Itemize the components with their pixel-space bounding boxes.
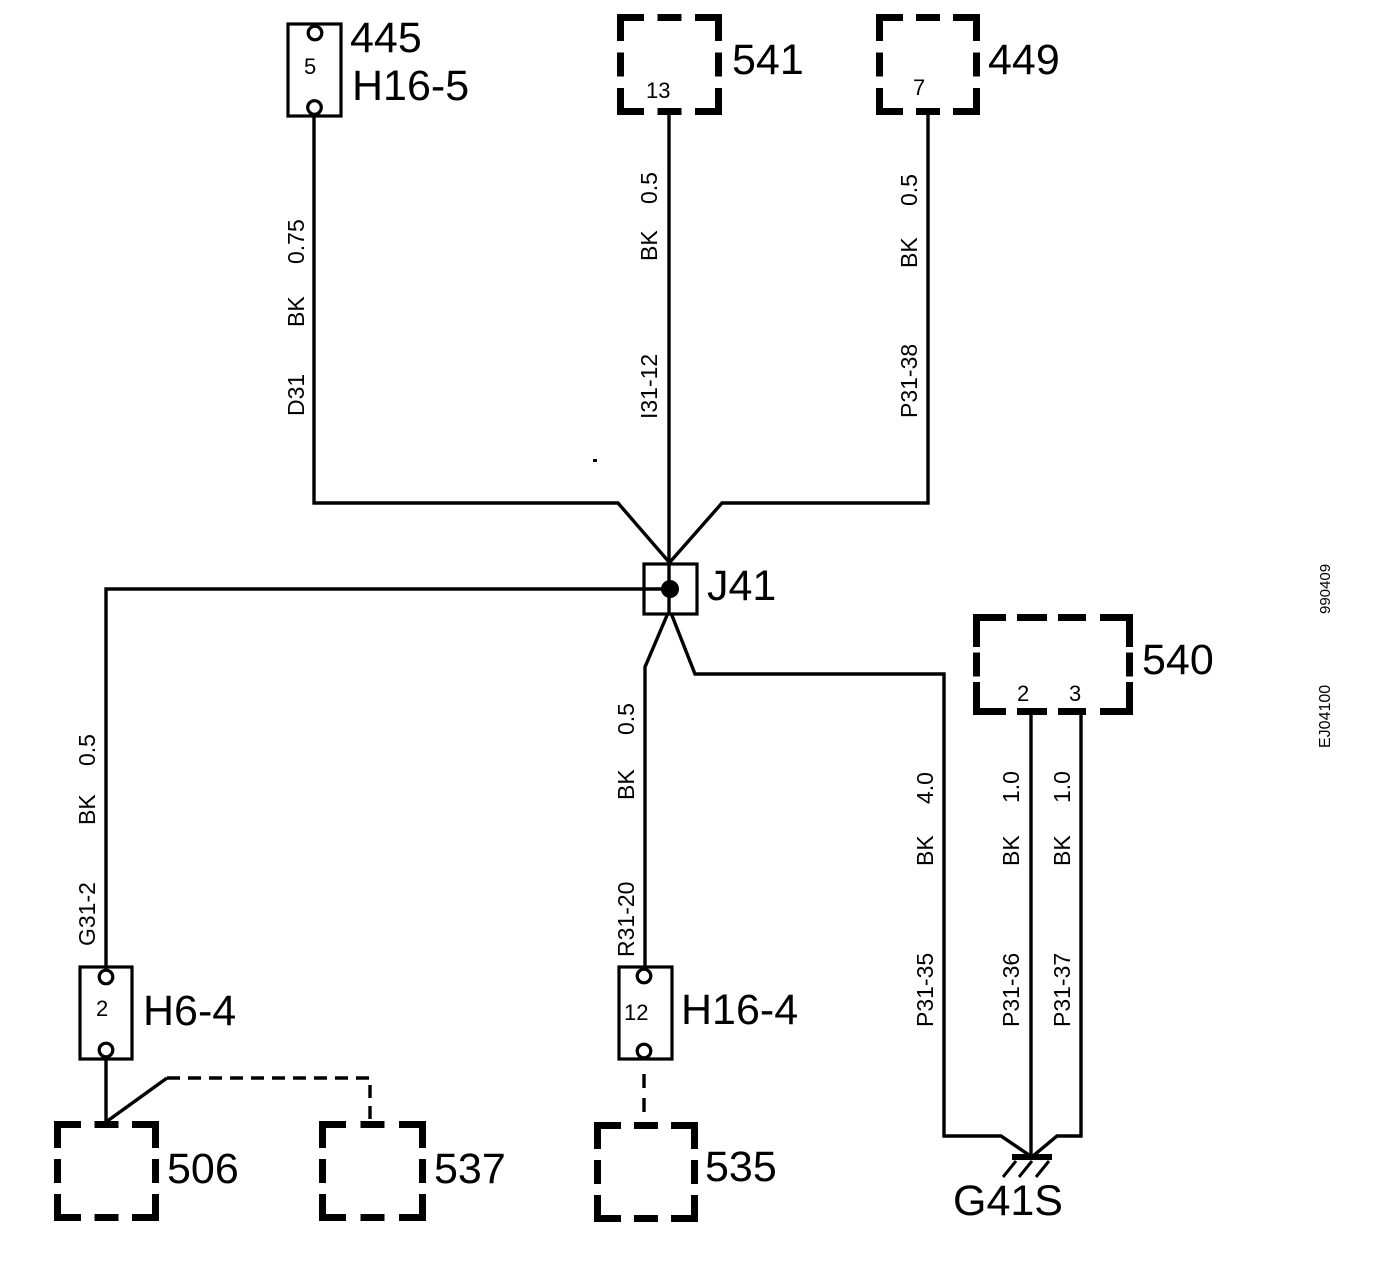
- svg-text:537: 537: [434, 1145, 506, 1193]
- component box 449 (dashed): [876, 14, 980, 115]
- svg-text:13: 13: [646, 78, 670, 103]
- svg-text:BK: BK: [283, 296, 309, 327]
- wire label P31-38 BK 0.5: [896, 174, 922, 418]
- svg-text:EJ04100: EJ04100: [1317, 685, 1334, 748]
- wire label I31-12 BK 0.5: [636, 172, 662, 419]
- wire P31-35 from splice J41 to ground G41S: [671, 613, 1032, 1157]
- svg-text:445: 445: [350, 14, 422, 62]
- margin reference EJ04100: [1317, 685, 1334, 748]
- svg-text:3: 3: [1069, 681, 1081, 706]
- wire label R31-20 BK 0.5: [613, 703, 639, 957]
- wire G31-2 from splice J41 to connector H6-4: [106, 589, 670, 971]
- wire I31-12 from 541 to splice J41: [667, 115, 670, 613]
- svg-text:BK: BK: [998, 835, 1024, 866]
- svg-text:R31-20: R31-20: [613, 882, 639, 957]
- svg-text:2: 2: [96, 996, 108, 1021]
- svg-text:I31-12: I31-12: [636, 354, 662, 419]
- svg-text:4.0: 4.0: [912, 772, 938, 804]
- component box 537 (dashed): [319, 1121, 426, 1221]
- svg-text:541: 541: [732, 36, 804, 84]
- dashed wire from connector H16-4 to component 535: [642, 1074, 645, 1121]
- svg-text:H16-5: H16-5: [352, 62, 469, 110]
- svg-text:BK: BK: [1049, 835, 1075, 866]
- svg-text:535: 535: [705, 1143, 777, 1191]
- wire label P31-35 BK 4.0: [912, 772, 938, 1027]
- ground symbol G41S: [1003, 1154, 1052, 1177]
- svg-text:P31-36: P31-36: [998, 953, 1024, 1027]
- svg-text:BK: BK: [912, 835, 938, 866]
- svg-text:G41S: G41S: [953, 1177, 1063, 1225]
- svg-text:12: 12: [624, 1000, 648, 1025]
- wire P31-38 from 449 to splice J41: [670, 115, 928, 562]
- component box 540 (dashed): [973, 614, 1133, 715]
- wire D31 from connector 445 to splice J41: [314, 113, 669, 562]
- svg-text:2: 2: [1017, 681, 1029, 706]
- svg-text:1.0: 1.0: [998, 771, 1024, 803]
- wire P31-37 from 540 pin 3 to ground G41S: [1033, 715, 1081, 1156]
- svg-text:H16-4: H16-4: [681, 986, 798, 1034]
- connector 445 / H16-5 pin 5: [288, 24, 341, 116]
- wire branch junction to dashed link at 506: [106, 1078, 167, 1122]
- svg-text:0.5: 0.5: [636, 172, 662, 204]
- svg-text:7: 7: [913, 75, 925, 100]
- svg-text:BK: BK: [896, 237, 922, 268]
- component box 506 (dashed): [54, 1121, 159, 1221]
- svg-text:BK: BK: [74, 794, 100, 825]
- svg-text:506: 506: [167, 1145, 239, 1193]
- svg-text:1.0: 1.0: [1049, 771, 1075, 803]
- wire from connector H6-4 to component 506: [104, 1057, 107, 1122]
- wire label P31-37 BK 1.0: [1049, 771, 1075, 1027]
- svg-text:BK: BK: [613, 769, 639, 800]
- svg-text:BK: BK: [636, 230, 662, 261]
- wire R31-20 from splice J41 to connector H16-4: [645, 613, 668, 970]
- svg-text:J41: J41: [707, 562, 776, 610]
- svg-text:H6-4: H6-4: [143, 987, 236, 1035]
- svg-text:0.5: 0.5: [613, 703, 639, 735]
- svg-text:990409: 990409: [1317, 564, 1334, 614]
- margin reference 990409: [1317, 564, 1334, 614]
- svg-text:0.5: 0.5: [74, 734, 100, 766]
- svg-text:G31-2: G31-2: [74, 882, 100, 946]
- svg-text:D31: D31: [283, 374, 309, 416]
- wire label G31-2 BK 0.5: [74, 734, 100, 946]
- scan speck: [593, 459, 597, 462]
- splice node J41: [644, 564, 697, 614]
- svg-text:540: 540: [1142, 636, 1214, 684]
- wire label P31-36 BK 1.0: [998, 771, 1024, 1027]
- component box 541 (dashed): [617, 14, 722, 115]
- svg-text:5: 5: [304, 54, 316, 79]
- svg-text:P31-37: P31-37: [1049, 953, 1075, 1027]
- dashed wire link from 506 branch to component 537: [167, 1078, 370, 1121]
- svg-text:0.75: 0.75: [283, 219, 309, 264]
- connector H6-4 pin 2: [80, 967, 132, 1059]
- component box 535 (dashed): [594, 1122, 698, 1222]
- wire P31-36 from 540 pin 2 to ground G41S: [1029, 715, 1032, 1156]
- wire label D31 BK 0.75: [283, 219, 309, 416]
- svg-text:0.5: 0.5: [896, 174, 922, 206]
- svg-text:P31-35: P31-35: [912, 953, 938, 1027]
- svg-text:P31-38: P31-38: [896, 344, 922, 418]
- connector H16-4 pin 12: [619, 967, 672, 1059]
- svg-text:449: 449: [988, 36, 1060, 84]
